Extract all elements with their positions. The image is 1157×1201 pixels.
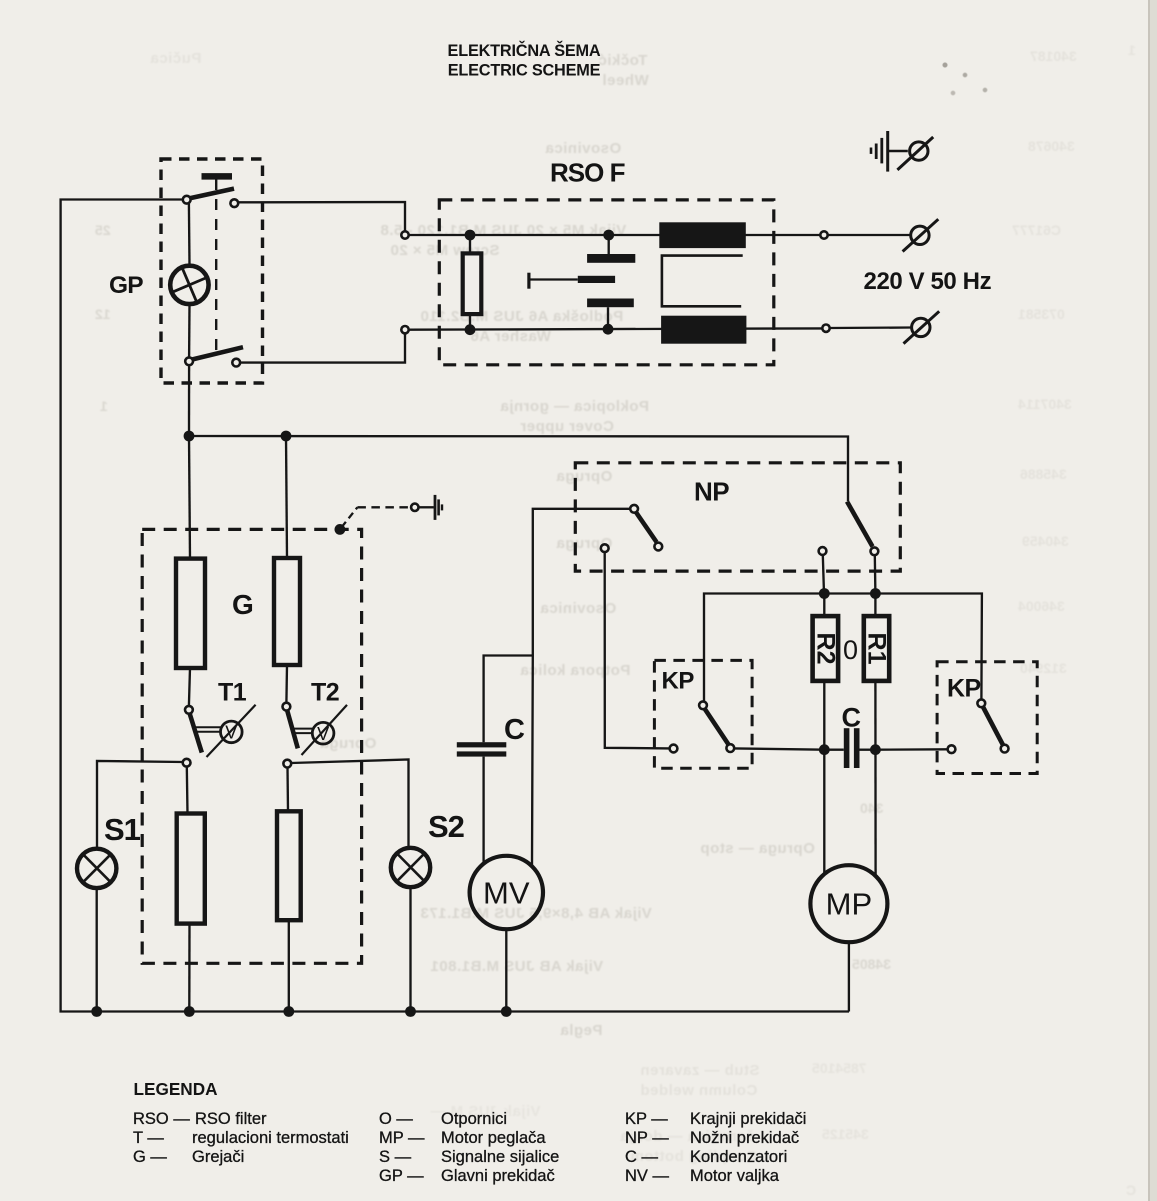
KP left box [654, 660, 752, 768]
node bus heater1 [184, 1006, 195, 1017]
svg-text:Motor valjka: Motor valjka [690, 1167, 780, 1185]
svg-text:Otpornici: Otpornici [441, 1110, 507, 1128]
wire to N plug [830, 326, 912, 329]
chassis tap bar [527, 273, 530, 289]
svg-text:GP: GP [109, 272, 143, 299]
lamp S2 [391, 848, 430, 887]
svg-text:T2: T2 [311, 679, 339, 707]
wire heater lower2 to bus [288, 920, 290, 1011]
capacitor C-RSO middle plate [578, 276, 615, 283]
node resistor bottom [465, 324, 476, 335]
wire NP-left lower contact to KP-left [605, 552, 670, 748]
capacitor C near MV plates [457, 742, 507, 747]
svg-text:C: C [842, 703, 862, 733]
node C left [819, 744, 830, 755]
wire R1 bottom to node [874, 681, 877, 876]
node bus S1 [91, 1006, 102, 1017]
thermostat T1 [185, 706, 193, 714]
GP switch top left contact [183, 196, 191, 204]
wire MP to bus [848, 942, 850, 1011]
node R1 top [870, 588, 881, 599]
plug pin N [912, 318, 930, 336]
GP switch top right contact [230, 199, 238, 207]
svg-text:O —: O — [379, 1110, 413, 1128]
heater G1 upper [176, 559, 205, 668]
svg-text:G: G [232, 589, 254, 620]
svg-text:G —: G — [133, 1148, 167, 1166]
switch KP-left [699, 701, 707, 709]
wire heater lower1 to bus [188, 924, 191, 1012]
switch NP-right [847, 502, 873, 547]
plug pin PE [910, 142, 928, 160]
svg-text:S2: S2 [428, 809, 464, 844]
resistor RSO [463, 253, 482, 314]
inductor L1 [659, 222, 746, 248]
plug pin L [911, 226, 929, 244]
capacitor C near MP [824, 749, 844, 751]
wire to L plug [828, 234, 911, 236]
wire R2 bottom to node [823, 681, 825, 875]
wire GP left long: down left side to bottom bus [61, 200, 849, 1012]
node heater2 tap [281, 431, 292, 442]
wire NP blade down to R1 [874, 555, 877, 593]
wire T1 down to heater lower1 [186, 766, 189, 813]
wire T2 down to heater lower2 [286, 767, 289, 811]
svg-text:220 V 50 Hz: 220 V 50 Hz [864, 268, 992, 295]
svg-text:Grejači: Grejači [192, 1148, 244, 1166]
svg-text:NP —: NP — [625, 1129, 669, 1147]
GP switch S-top mechanical link bar [202, 173, 233, 180]
terminal L-out [820, 231, 827, 238]
svg-text:KP: KP [662, 668, 695, 695]
svg-text:Nožni prekidač: Nožni prekidač [690, 1129, 799, 1147]
resistor R1 [874, 594, 876, 617]
wire GP bottom-right to RSO lower terminal [241, 333, 406, 362]
capacitor C-RSO bottom plate [587, 299, 634, 308]
svg-text:LEGENDA: LEGENDA [134, 1079, 218, 1099]
wire MV to bus [505, 929, 507, 1011]
svg-text:ELECTRIC SCHEME: ELECTRIC SCHEME [448, 62, 601, 80]
node bus heater2 [283, 1006, 294, 1017]
node C right [870, 744, 881, 755]
GP switch top blade [188, 189, 235, 199]
wire dashed to ground [342, 507, 358, 527]
svg-text:KP: KP [947, 675, 981, 703]
lamp GP [170, 266, 208, 304]
ground symbol top-right [870, 148, 873, 154]
terminal N-out [822, 325, 829, 332]
node bus MV [501, 1006, 512, 1017]
terminal N-in [401, 326, 408, 333]
heater G2 upper [274, 558, 300, 665]
svg-text:regulacioni termostati: regulacioni termostati [192, 1129, 349, 1147]
GP switch bottom right contact [232, 359, 240, 367]
heater lower1 [177, 814, 205, 924]
node capacitor bottom [603, 324, 614, 335]
wire KP-left blade to C node [734, 748, 824, 749]
svg-text:RSO filter: RSO filter [195, 1110, 267, 1128]
capacitor C-RSO top plate [608, 235, 610, 254]
GP switch bottom left contact [185, 357, 193, 365]
terminal ground [411, 504, 418, 511]
GP box [161, 159, 263, 383]
svg-text:MP: MP [826, 887, 873, 922]
thermostat T2 [285, 665, 288, 703]
node resistor top [465, 230, 476, 241]
svg-text:R2: R2 [811, 633, 839, 665]
wire RSO bottom line [409, 328, 823, 329]
svg-text:C —: C — [625, 1148, 659, 1166]
svg-text:S —: S — [379, 1148, 412, 1166]
svg-text:Kondenzatori: Kondenzatori [690, 1148, 787, 1166]
heater lower2 [277, 811, 301, 920]
svg-text:0: 0 [843, 635, 858, 665]
NP box [575, 463, 900, 571]
motor MP [810, 865, 887, 942]
svg-text:KP —: KP — [625, 1110, 668, 1128]
wire heater G1 to T1 [189, 668, 190, 706]
wire bus to heater G2 [286, 436, 287, 558]
RSO F box [439, 200, 774, 365]
svg-text:NV —: NV — [625, 1167, 670, 1185]
wire NP-left feed [532, 509, 630, 865]
node capacitor top [603, 230, 614, 241]
svg-text:R1: R1 [863, 633, 891, 665]
svg-text:NP: NP [694, 477, 729, 507]
wire S1 to bus [96, 888, 98, 1011]
wire bus to heater G1 [189, 436, 190, 559]
svg-text:T1: T1 [218, 679, 247, 707]
svg-text:C: C [504, 714, 525, 746]
lamp S1 [77, 849, 116, 888]
capacitor C near MV jog [484, 656, 533, 743]
wire capacitor mid tap [529, 278, 578, 280]
wire resistor top rail [704, 594, 982, 702]
node bus S2 [405, 1006, 416, 1017]
switch KP-right [948, 745, 956, 753]
svg-text:Signalne sijalice: Signalne sijalice [441, 1148, 559, 1166]
svg-text:S1: S1 [104, 812, 141, 847]
GP switch bottom blade [190, 347, 243, 360]
wire C node to KP-right [875, 748, 947, 751]
faint bleed-through from reverse page [0, 0, 1157, 1]
svg-text:RSO F: RSO F [550, 158, 625, 188]
wire C to MV [482, 757, 484, 864]
G box [142, 529, 361, 963]
ground symbol G [434, 495, 437, 520]
svg-text:RSO —: RSO — [133, 1110, 190, 1128]
wire RSO top line [409, 234, 821, 236]
node R2 top [819, 588, 830, 599]
wire GP internal bottom lead [188, 305, 191, 358]
node ground tap on G box [335, 524, 346, 535]
switch NP-left [630, 505, 638, 513]
svg-text:GP —: GP — [379, 1167, 424, 1185]
svg-text:Glavni prekidač: Glavni prekidač [441, 1167, 555, 1185]
terminal L-in [401, 231, 408, 238]
resistor R2 [823, 594, 825, 617]
svg-text:Krajnji prekidači: Krajnji prekidači [690, 1110, 806, 1128]
inductor L2 [661, 316, 746, 344]
svg-text:MV: MV [483, 876, 530, 911]
core bracket [662, 256, 743, 307]
svg-text:ELEKTRIČNA ŠEMA: ELEKTRIČNA ŠEMA [448, 41, 601, 60]
motor MV [470, 856, 543, 929]
wire T2 to S2 [291, 760, 408, 849]
wire T1 to S1 [97, 761, 183, 849]
wire top distribution bus [189, 436, 848, 501]
KP right box [937, 662, 1037, 774]
wire GP internal top lead [188, 204, 191, 265]
node bus-left junction [184, 431, 195, 442]
svg-text:T —: T — [133, 1129, 164, 1147]
wire GP down to distribution bus [188, 366, 190, 437]
svg-text:MP —: MP — [379, 1129, 425, 1147]
legend [133, 1079, 806, 1185]
wire NP R2-throw down [823, 555, 824, 594]
wire S2 to bus [409, 887, 411, 1011]
wire GP top-right to RSO input terminal [239, 202, 405, 231]
svg-text:Motor peglača: Motor peglača [441, 1129, 546, 1147]
